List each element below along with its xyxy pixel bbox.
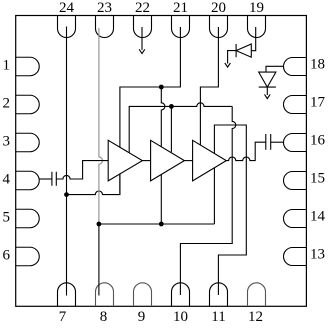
wire rail1 with hop over gray net bbox=[67, 174, 120, 195]
svg-text:18: 18 bbox=[310, 57, 325, 73]
wire T2-line2 bbox=[170, 106, 172, 152]
svg-text:22: 22 bbox=[135, 0, 150, 16]
wire U1 out to U2 in bbox=[142, 160, 150, 162]
pin 4 slot bbox=[16, 171, 40, 190]
svg-text:6: 6 bbox=[3, 248, 11, 264]
pin 12 slot bbox=[248, 283, 266, 307]
pin 1 slot bbox=[16, 57, 40, 76]
pin 13 slot bbox=[284, 248, 307, 266]
wire trunk pin24 to pin7 bbox=[66, 27, 68, 296]
arrow pin22 down bbox=[139, 49, 145, 53]
wire D1 to substrate arrow bbox=[228, 51, 237, 64]
op-amp U2 triangle bbox=[151, 140, 185, 181]
svg-text:3: 3 bbox=[3, 134, 11, 150]
svg-text:15: 15 bbox=[310, 171, 325, 187]
pin 21 slot bbox=[172, 16, 190, 38]
node junction dot T2-line2 bbox=[169, 104, 174, 109]
wire U3 output with hops over W1 and W2R, up to cap16 bbox=[226, 142, 265, 160]
pin 17 slot bbox=[284, 96, 307, 114]
svg-text:9: 9 bbox=[138, 309, 146, 325]
pin 8 slot bbox=[96, 283, 114, 307]
svg-text:21: 21 bbox=[173, 0, 188, 16]
wire T1 bottom link bbox=[119, 174, 121, 195]
svg-text:16: 16 bbox=[310, 133, 326, 149]
package outline bbox=[16, 16, 307, 307]
wire gray net pin23 to pin8 with hop over T1 input bbox=[99, 28, 103, 224]
wire T2 bottom link bbox=[160, 175, 162, 225]
diode D2 triangle down-pointing bbox=[259, 72, 276, 87]
wire cap to T1 input with hop over trunk bbox=[56, 161, 108, 179]
node junction dot T2-line1 bbox=[159, 85, 164, 90]
svg-text:10: 10 bbox=[173, 309, 188, 325]
wire pin19 down to diode bbox=[251, 27, 255, 51]
svg-text:4: 4 bbox=[3, 172, 11, 188]
wire U2 out to U3 in bbox=[184, 160, 192, 162]
diode D1 cathode bar bbox=[235, 44, 237, 57]
wire W2 lower segment T3 to rail2 bbox=[213, 168, 215, 224]
svg-text:7: 7 bbox=[59, 309, 67, 325]
pin 5 slot bbox=[16, 209, 40, 228]
svg-text:17: 17 bbox=[310, 95, 326, 111]
wire yB net corner to T1 edge bbox=[129, 103, 232, 153]
svg-text:13: 13 bbox=[310, 247, 325, 263]
pin 2 slot bbox=[16, 95, 40, 114]
pin 11 slot bbox=[210, 283, 228, 307]
node rail2 junction dot T2 bottom bbox=[159, 222, 164, 227]
pin 15 slot bbox=[284, 172, 307, 190]
pin 9 slot bbox=[134, 283, 152, 307]
op-amp U3 triangle bbox=[193, 140, 227, 181]
wire rail2 bbox=[99, 223, 214, 225]
pin 23 slot bbox=[96, 16, 114, 38]
wire cap16 to pin16 bbox=[271, 141, 284, 143]
pin 14 slot bbox=[284, 210, 307, 228]
wire pin20 jog to T3 top bbox=[200, 27, 218, 145]
svg-text:11: 11 bbox=[211, 309, 225, 325]
svg-text:24: 24 bbox=[59, 0, 75, 16]
wire pin21 net y87 bbox=[120, 27, 180, 147]
svg-text:23: 23 bbox=[97, 0, 112, 16]
svg-text:14: 14 bbox=[310, 209, 326, 225]
svg-text:20: 20 bbox=[211, 0, 226, 16]
op-amp U1 triangle bbox=[108, 140, 142, 181]
pin 7 slot bbox=[58, 283, 76, 307]
wire W2 bridge and elbow to pin11 bbox=[214, 125, 246, 295]
arrow substrate down bbox=[225, 63, 231, 67]
diode D2 cathode bar bbox=[259, 86, 276, 88]
pin 20 slot bbox=[210, 16, 228, 38]
pin 6 slot bbox=[16, 247, 40, 266]
pin 16 slot bbox=[284, 134, 307, 152]
capacitor C1 plates bbox=[52, 172, 56, 186]
svg-text:2: 2 bbox=[3, 96, 11, 112]
pin 18 slot bbox=[284, 58, 307, 76]
pin 22 slot bbox=[134, 16, 152, 38]
diode D1 triangle left-pointing bbox=[236, 44, 251, 57]
wire W1 down with hop over bridge, elbow to pin10 bbox=[180, 106, 235, 295]
wire D2 stem bbox=[266, 87, 268, 95]
svg-text:12: 12 bbox=[248, 309, 263, 325]
pin 24 slot bbox=[58, 16, 76, 38]
node rail2 junction dot on gray net bbox=[97, 222, 102, 227]
pin 3 slot bbox=[16, 133, 40, 152]
wire pin18 to diode D2 bbox=[266, 66, 284, 72]
pin 10 slot bbox=[172, 283, 190, 307]
capacitor C2 plates bbox=[266, 134, 271, 150]
wire pin22 stub bbox=[141, 27, 143, 50]
node rail1 junction dot on trunk bbox=[64, 192, 69, 197]
pin 19 slot bbox=[248, 16, 266, 38]
wire T2-line1 with hop over yB net bbox=[161, 87, 165, 147]
svg-text:8: 8 bbox=[100, 309, 108, 325]
svg-text:1: 1 bbox=[3, 58, 11, 74]
arrow D2 substrate down bbox=[265, 94, 271, 98]
svg-text:5: 5 bbox=[3, 210, 11, 226]
wire pin4 to capacitor bbox=[39, 178, 52, 180]
svg-text:19: 19 bbox=[249, 0, 264, 16]
